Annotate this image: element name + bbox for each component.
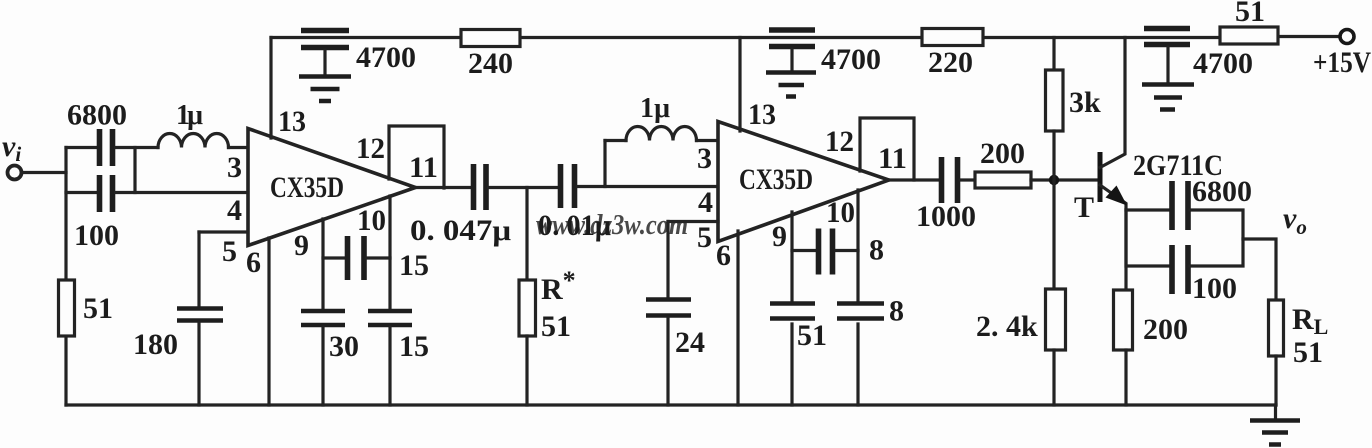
svg-text:200: 200 bbox=[980, 137, 1025, 170]
svg-text:CX35D: CX35D bbox=[739, 163, 813, 196]
svg-text:10: 10 bbox=[826, 196, 855, 229]
svg-text:180: 180 bbox=[133, 328, 178, 361]
svg-text:220: 220 bbox=[928, 46, 973, 79]
capacitor 0.047u bbox=[474, 164, 487, 210]
svg-text:4700: 4700 bbox=[356, 41, 416, 74]
inductor L1 1u bbox=[158, 134, 229, 148]
ground symbol 4 bbox=[1274, 405, 1277, 418]
transistor Q1 collector bbox=[1100, 38, 1125, 168]
wire upper input branch bbox=[66, 146, 97, 149]
svg-text:4700: 4700 bbox=[1193, 47, 1253, 80]
svg-text:51: 51 bbox=[541, 310, 571, 343]
wire capacitor 51 to rail bbox=[790, 324, 793, 405]
svg-text:24: 24 bbox=[675, 326, 705, 359]
svg-text:100: 100 bbox=[74, 219, 119, 252]
svg-text:1000: 1000 bbox=[916, 200, 976, 233]
wire capacitor 24 to rail bbox=[666, 318, 669, 405]
wire capacitor 15 to rail bbox=[388, 327, 391, 405]
wire pin 12 jumper loop bbox=[389, 126, 444, 188]
svg-text:3k: 3k bbox=[1069, 86, 1101, 119]
wire U1 output to cap bbox=[416, 186, 472, 189]
resistor 200 base bbox=[975, 172, 1031, 188]
wire inductor riser bbox=[603, 141, 606, 187]
wire capacitor 8 to rail bbox=[856, 324, 859, 405]
wire top supply rail segment 2 bbox=[520, 36, 922, 39]
wire pin 10 U2 down bbox=[856, 190, 859, 303]
svg-text:240: 240 bbox=[468, 47, 513, 80]
capacitor 51 stage2 bbox=[770, 304, 815, 319]
svg-text:6: 6 bbox=[246, 246, 261, 279]
wire cap 4700-2 stem bbox=[790, 49, 793, 70]
wire bottom ground rail bbox=[66, 403, 1276, 406]
svg-text:+15V: +15V bbox=[1313, 46, 1371, 79]
svg-text:CX35D: CX35D bbox=[270, 171, 344, 204]
transistor Q1 2G711C base bar bbox=[1098, 152, 1103, 202]
wire cap 0.01 to pin 4 U2 bbox=[577, 185, 718, 188]
wire cap 1000 to resistor 200 bbox=[960, 178, 975, 181]
svg-text:0. 047μ: 0. 047μ bbox=[410, 214, 511, 247]
wire inductor to pin 3 U2 bbox=[697, 139, 719, 142]
svg-text:4700: 4700 bbox=[821, 43, 881, 76]
resistor 200 emitter bbox=[1114, 290, 1133, 350]
resistor 240 bbox=[461, 30, 520, 47]
svg-text:4: 4 bbox=[698, 186, 713, 219]
svg-text:5: 5 bbox=[222, 235, 237, 268]
svg-text:5: 5 bbox=[697, 221, 712, 254]
node +15V terminal bbox=[1340, 30, 1354, 44]
wire cap 8 bridge left bbox=[792, 249, 815, 252]
resistor RL 51 bbox=[1269, 300, 1284, 356]
wire cap to R* junction to cap 0.01 bbox=[489, 186, 559, 189]
wire top supply rail segment 1 bbox=[271, 36, 461, 39]
capacitor 1000 bbox=[942, 157, 958, 203]
svg-text:2. 4k: 2. 4k bbox=[976, 310, 1038, 343]
wire cap 4700-1 stem bbox=[323, 50, 326, 74]
svg-text:12: 12 bbox=[825, 125, 854, 158]
capacitor 100 output bbox=[1172, 245, 1188, 294]
capacitor 180 bbox=[177, 309, 223, 321]
node vi input terminal bbox=[8, 166, 22, 180]
wire pin 13 U2 to rail bbox=[738, 38, 741, 132]
wire pin 13 to rail bbox=[269, 38, 272, 139]
resistor 220 bbox=[922, 29, 983, 46]
inductor L2 1u bbox=[626, 127, 697, 141]
wire pin 5 U2 down bbox=[666, 222, 669, 298]
wire pin 5 down bbox=[197, 232, 200, 306]
svg-text:1μ: 1μ bbox=[640, 93, 670, 124]
svg-text:T: T bbox=[1074, 191, 1094, 224]
svg-text:200: 200 bbox=[1143, 313, 1188, 346]
svg-text:15: 15 bbox=[399, 330, 429, 363]
wire R* to rail bbox=[525, 336, 528, 405]
wire pin 5 stub bbox=[199, 230, 248, 233]
capacitor 15 bridge bbox=[348, 236, 365, 280]
wire emitter node branches bbox=[1126, 210, 1170, 266]
wire U2 output to cap 1000 bbox=[889, 178, 939, 181]
wire input vertical bus bbox=[64, 148, 67, 406]
capacitor C4700 bypass 2 bbox=[769, 30, 815, 47]
wire base node to 2.4k bbox=[1052, 180, 1055, 289]
wire inductor to pin 3 bbox=[229, 146, 249, 149]
svg-text:6: 6 bbox=[716, 239, 731, 272]
wire resistor 200 to rail bbox=[1124, 350, 1127, 405]
capacitor 30 bbox=[301, 311, 345, 325]
capacitor 0.01u bbox=[561, 164, 575, 208]
op-amp U1 CX35D bbox=[248, 129, 416, 246]
wire output caps right side bbox=[1190, 210, 1243, 266]
svg-text:13: 13 bbox=[278, 105, 306, 138]
capacitor C4700 bypass 3 bbox=[1144, 29, 1190, 45]
svg-text:9: 9 bbox=[772, 220, 787, 253]
svg-text:3: 3 bbox=[227, 151, 242, 184]
resistor 51 input bbox=[59, 280, 75, 336]
wire 3k from rail bbox=[1052, 38, 1055, 71]
wire cap 4700-3 stem bbox=[1166, 47, 1169, 82]
resistor 3k bbox=[1046, 70, 1064, 131]
capacitor 100 input bbox=[100, 175, 113, 212]
wire capacitor 180 to rail bbox=[197, 323, 200, 405]
svg-text:8: 8 bbox=[889, 295, 904, 328]
svg-text:3: 3 bbox=[697, 142, 712, 175]
svg-text:6800: 6800 bbox=[67, 99, 127, 132]
resistor 2.4k bbox=[1046, 289, 1066, 350]
svg-text:51: 51 bbox=[797, 319, 827, 352]
svg-text:13: 13 bbox=[748, 98, 776, 131]
wire pin 9 U2 down bbox=[790, 212, 793, 303]
svg-text:www.dz3w.com: www.dz3w.com bbox=[536, 210, 688, 241]
wire pin 6 to rail bbox=[267, 238, 270, 405]
wire vo tap bbox=[1243, 239, 1276, 300]
wire pin 6 U2 to rail bbox=[736, 231, 739, 405]
wire pin 12 U2 jumper loop bbox=[860, 118, 914, 180]
wire top supply rail segment 4 bbox=[1278, 35, 1339, 38]
wire lower input branch bbox=[66, 191, 97, 194]
transistor Q1 emitter bbox=[1100, 185, 1126, 210]
node base junction bbox=[1049, 175, 1059, 185]
svg-text:8: 8 bbox=[869, 234, 884, 267]
ground symbol 2 bbox=[766, 73, 816, 97]
wire upper branch to inductor node bbox=[116, 146, 159, 149]
svg-text:12: 12 bbox=[356, 132, 385, 165]
wire lower branch to pin 4 bbox=[116, 191, 249, 194]
wire R* down bbox=[525, 188, 528, 281]
capacitor 24 bbox=[646, 300, 691, 316]
capacitor 8 vertical stage2 bbox=[837, 304, 884, 319]
ground symbol 1 bbox=[299, 77, 351, 102]
wire cap 15 bridge left bbox=[323, 256, 345, 259]
svg-text:6800: 6800 bbox=[1192, 175, 1252, 208]
svg-text:11: 11 bbox=[409, 151, 438, 184]
capacitor 8 bridge bbox=[819, 229, 833, 275]
wire RL to rail bbox=[1274, 356, 1277, 405]
svg-text:15: 15 bbox=[399, 249, 429, 282]
transistor Q1 emitter arrow bbox=[1106, 186, 1128, 206]
resistor 51 supply bbox=[1220, 27, 1278, 44]
wire pin 10 down bbox=[388, 196, 391, 309]
svg-text:51: 51 bbox=[83, 292, 113, 325]
svg-text:51: 51 bbox=[1235, 0, 1265, 28]
wire inductor riser left stub bbox=[605, 139, 626, 142]
svg-text:100: 100 bbox=[1192, 272, 1237, 305]
resistor R* 51 bbox=[519, 280, 536, 336]
capacitor 6800 input bbox=[100, 129, 113, 166]
wire resistor 200 to base node bbox=[1031, 178, 1098, 181]
capacitor 6800 output bbox=[1172, 181, 1188, 230]
wire top supply rail segment 3 bbox=[983, 36, 1220, 39]
wire link between branches bbox=[133, 148, 136, 193]
svg-text:9: 9 bbox=[294, 229, 309, 262]
wire cap 8 bridge right bbox=[836, 249, 858, 252]
svg-text:4: 4 bbox=[227, 194, 242, 227]
op-amp U2 CX35D bbox=[718, 122, 889, 242]
wire capacitor 30 to rail bbox=[321, 327, 324, 405]
capacitor C4700 bypass 1 bbox=[301, 31, 349, 48]
svg-text:30: 30 bbox=[329, 330, 359, 363]
wire emitter to resistor 200 bbox=[1124, 210, 1127, 290]
wire cap 15 bridge right bbox=[366, 256, 390, 259]
wire pin 5 U2 stub bbox=[668, 220, 718, 223]
wire 2.4k to rail bbox=[1052, 350, 1055, 405]
ground symbol 3 bbox=[1142, 85, 1194, 110]
capacitor 15 vertical bbox=[368, 311, 412, 325]
svg-text:1μ: 1μ bbox=[176, 100, 203, 131]
svg-text:10: 10 bbox=[357, 204, 386, 237]
wire input lead bbox=[22, 171, 67, 174]
svg-text:11: 11 bbox=[878, 142, 907, 175]
svg-text:51: 51 bbox=[1293, 336, 1323, 369]
wire 3k to base node bbox=[1052, 131, 1055, 180]
wire pin 9 down bbox=[321, 219, 324, 309]
